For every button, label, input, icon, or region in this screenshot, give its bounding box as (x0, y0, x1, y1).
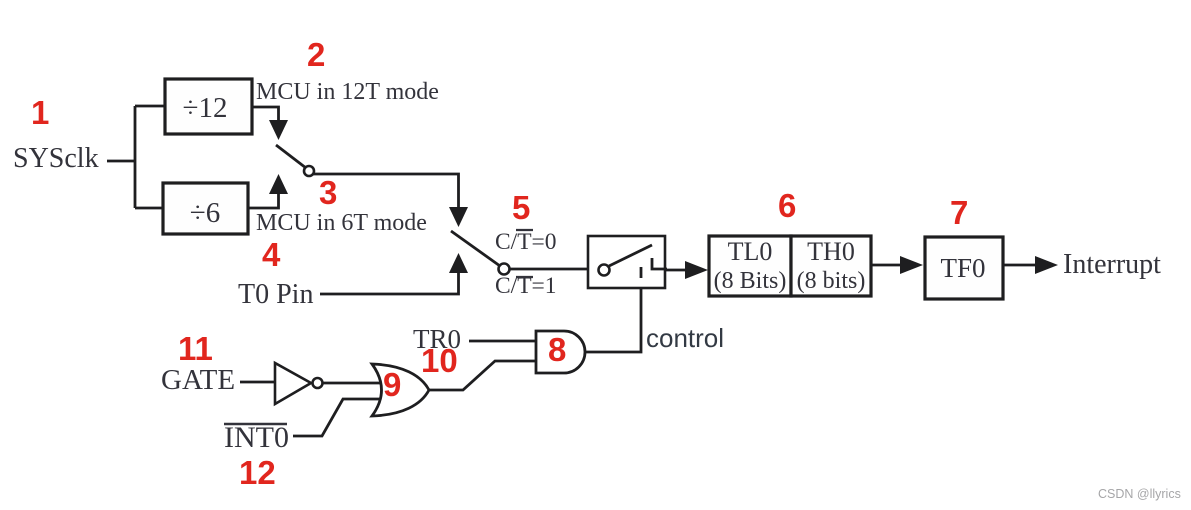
switch tick control (640, 267, 643, 278)
svg-text:8: 8 (548, 331, 566, 368)
overline C/T=1 (516, 276, 533, 278)
wire AND output to control node (585, 288, 641, 352)
svg-text:Interrupt: Interrupt (1063, 249, 1161, 280)
arrowhead up T0 (449, 253, 468, 273)
svg-text:MCU in 6T mode: MCU in 6T mode (256, 210, 427, 236)
svg-text:TH0: TH0 (807, 237, 855, 266)
svg-text:4: 4 (262, 236, 281, 273)
wire div12 output (252, 107, 279, 121)
svg-text:5: 5 (512, 189, 530, 226)
arrowhead down 12T (269, 120, 288, 140)
wire to div6 (135, 207, 163, 210)
svg-text:control: control (646, 323, 724, 353)
divider box ÷12 (165, 79, 252, 134)
svg-text:(8 Bits): (8 Bits) (714, 268, 787, 294)
svg-text:12: 12 (239, 454, 276, 491)
switch contact control (652, 258, 667, 269)
overline INT0 (224, 423, 287, 425)
svg-text:GATE: GATE (161, 364, 235, 396)
register box TL0 (709, 236, 791, 296)
svg-text:INT0: INT0 (224, 421, 289, 454)
svg-text:10: 10 (421, 342, 458, 379)
svg-text:11: 11 (178, 330, 213, 367)
divider box ÷6 (163, 183, 248, 234)
wire TR0 to AND (469, 340, 537, 343)
AND gate (536, 331, 585, 373)
inverter bubble (313, 378, 323, 388)
svg-text:(8 bits): (8 bits) (797, 268, 866, 294)
svg-text:TL0: TL0 (728, 237, 773, 266)
svg-text:3: 3 (319, 174, 337, 211)
svg-text:÷12: ÷12 (183, 92, 228, 124)
wire div6 output (248, 193, 279, 208)
svg-text:C/T=0: C/T=0 (495, 229, 557, 255)
svg-text:6: 6 (778, 187, 796, 224)
svg-text:÷6: ÷6 (190, 197, 220, 229)
wire to div12 (135, 105, 165, 108)
wire GATE to inverter (240, 381, 276, 384)
switch node circle C/T (499, 264, 510, 275)
switch lever T-mode (276, 145, 306, 168)
control switch box (588, 236, 665, 288)
OR gate (372, 364, 429, 416)
svg-text:TF0: TF0 (940, 253, 985, 283)
svg-text:2: 2 (307, 36, 325, 73)
wire TH0 to TF0 (871, 264, 901, 267)
switch lever control (609, 245, 652, 266)
overline C/T=0 (516, 229, 533, 231)
svg-text:9: 9 (383, 366, 401, 403)
register box TH0 (791, 236, 871, 296)
switch node circle T-mode (304, 166, 314, 176)
wire inverter to OR (323, 382, 380, 385)
svg-text:MCU in 12T mode: MCU in 12T mode (256, 79, 439, 105)
wire switch box output (665, 269, 686, 272)
arrowhead interrupt (1035, 256, 1058, 274)
wire SYSclk stub (107, 160, 135, 163)
switch node circle control (599, 265, 610, 276)
svg-text:T0 Pin: T0 Pin (238, 279, 313, 310)
svg-text:7: 7 (950, 194, 968, 231)
arrowhead into TF0 (900, 256, 923, 274)
svg-text:CSDN @llyrics: CSDN @llyrics (1098, 487, 1181, 501)
arrowhead into TL0 (685, 261, 708, 279)
wire OR to AND (429, 361, 537, 390)
arrowhead up 6T (269, 174, 288, 194)
wire to control switch box (510, 268, 588, 271)
arrowhead down clock (449, 207, 468, 227)
switch lever C/T (451, 231, 500, 266)
wire INT0 to OR (293, 399, 380, 436)
flag box TF0 (925, 237, 1003, 299)
svg-text:SYSclk: SYSclk (13, 143, 99, 174)
wire T0 pin (320, 272, 459, 294)
wire T-mode switch to counter switch (313, 174, 459, 207)
svg-text:1: 1 (31, 94, 49, 131)
wire branch vertical (134, 106, 137, 208)
inverter U-not triangle (275, 363, 311, 404)
wire TF0 to interrupt (1003, 264, 1036, 267)
